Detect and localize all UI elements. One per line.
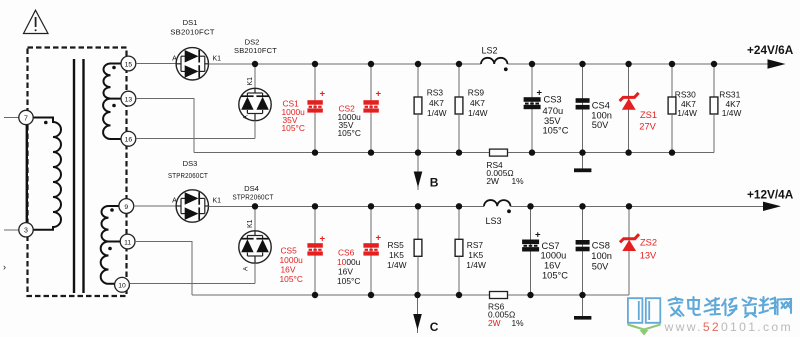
RS7 value label <box>466 240 486 270</box>
svg-text:470u: 470u <box>543 106 564 116</box>
terminal 16 <box>121 131 136 146</box>
svg-text:CS4: CS4 <box>592 100 610 110</box>
transformer secondary winding bottom (9-11-10) <box>101 206 120 284</box>
resistor RS4 (current sense) <box>490 149 508 156</box>
svg-text:16V: 16V <box>544 261 561 271</box>
terminal 13 <box>121 91 136 106</box>
RS5 value label <box>387 240 407 270</box>
CS4 value label <box>591 100 612 130</box>
resistor RS6 (current sense) <box>490 292 508 299</box>
inductor LS3 <box>484 200 510 206</box>
svg-text:SB2010FCT: SB2010FCT <box>170 27 215 36</box>
ground rail top section <box>194 152 490 154</box>
ground symbol bottom section <box>574 295 591 320</box>
junction dots top rail <box>252 61 717 67</box>
svg-text:+24V/6A: +24V/6A <box>747 43 794 57</box>
svg-text:4K7: 4K7 <box>470 98 485 108</box>
svg-text:DS3: DS3 <box>183 159 198 168</box>
resistor RS30 <box>668 64 676 153</box>
svg-text:+: + <box>535 230 541 241</box>
capacitor CS3 <box>524 64 543 153</box>
svg-text:›: › <box>3 262 6 272</box>
svg-text:K1: K1 <box>213 198 222 205</box>
warning triangle <box>24 10 49 33</box>
terminal 11 <box>120 234 135 249</box>
capacitor CS8 <box>576 206 590 295</box>
watermark site name (stylized) <box>669 297 792 317</box>
svg-text:1%: 1% <box>512 176 525 186</box>
svg-text:16: 16 <box>125 137 133 144</box>
CS6 value label <box>337 247 361 286</box>
svg-text:K1: K1 <box>247 219 254 228</box>
svg-text:1K5: 1K5 <box>389 250 404 260</box>
svg-text:K1: K1 <box>213 55 222 62</box>
inductor LS2 <box>481 58 507 64</box>
svg-text:+12V/4A: +12V/4A <box>747 187 794 201</box>
svg-text:A: A <box>172 198 177 205</box>
wire 9 to DS3 <box>134 205 176 207</box>
svg-text:LS2: LS2 <box>482 46 498 56</box>
wire 15 to DS1 <box>136 63 176 65</box>
svg-text:3: 3 <box>24 228 28 235</box>
capacitor CS7 <box>522 206 541 295</box>
CS1 value label <box>282 99 306 134</box>
svg-text:2W: 2W <box>486 176 499 186</box>
svg-text:1000u: 1000u <box>541 251 567 261</box>
RS6 value label <box>488 302 524 328</box>
node C arrow <box>413 295 422 333</box>
RS4 value label <box>486 160 524 186</box>
junction dots top ground rail <box>312 149 675 155</box>
svg-text:4K7: 4K7 <box>429 98 444 108</box>
svg-text:RS3: RS3 <box>427 88 444 98</box>
svg-text:15: 15 <box>125 61 133 68</box>
secondary top polarity dots <box>112 66 116 70</box>
RS30 value label <box>675 90 697 119</box>
svg-text:11: 11 <box>124 239 131 246</box>
wire: solid link between terminals 7 and 3 <box>26 123 28 224</box>
svg-text:105°C: 105°C <box>337 276 360 286</box>
svg-text:C: C <box>430 320 439 334</box>
resistor RS9 <box>455 64 463 153</box>
svg-text:1/4W: 1/4W <box>466 260 486 270</box>
capacitor CS2 <box>363 64 381 153</box>
CS5 value label <box>280 246 304 284</box>
svg-text:27V: 27V <box>639 121 656 131</box>
capacitor CS6 <box>363 206 381 295</box>
svg-text:LS3: LS3 <box>486 216 502 226</box>
svg-text:105°C: 105°C <box>542 270 568 280</box>
CS8 value label <box>591 241 612 272</box>
svg-text:B: B <box>430 176 439 190</box>
primary polarity dot <box>44 121 48 125</box>
svg-text:1/4W: 1/4W <box>722 108 742 118</box>
svg-text:RS5: RS5 <box>388 240 405 250</box>
svg-text:50V: 50V <box>592 120 609 130</box>
svg-text:10: 10 <box>118 283 126 290</box>
transformer primary winding <box>33 118 61 230</box>
svg-text:+: + <box>376 233 382 244</box>
terminal 3 <box>19 223 33 237</box>
svg-text:+: + <box>376 89 382 100</box>
svg-text:A: A <box>243 266 250 271</box>
svg-text:STPR2060CT: STPR2060CT <box>168 171 208 180</box>
zener ZS1 <box>620 64 639 153</box>
svg-text:ZS1: ZS1 <box>640 110 657 120</box>
diode DS2 <box>239 64 271 121</box>
svg-text:RS9: RS9 <box>468 88 485 98</box>
svg-text:CS6: CS6 <box>338 247 355 257</box>
CS3 value label <box>543 95 569 136</box>
capacitor CS5 <box>307 206 325 295</box>
+12V arrowhead <box>763 202 781 211</box>
watermark book icon <box>628 298 660 323</box>
svg-text:RS30: RS30 <box>675 90 696 100</box>
svg-text:CS7: CS7 <box>542 241 560 251</box>
transformer core <box>73 59 75 293</box>
ground rail bottom section <box>192 294 490 296</box>
RS3 value label <box>427 88 447 118</box>
+24V arrowhead <box>768 59 786 68</box>
resistor RS7 <box>455 206 463 295</box>
capacitor CS4 <box>576 64 590 153</box>
capacitor CS1 <box>307 64 325 153</box>
svg-text:13V: 13V <box>640 250 657 260</box>
CS2 value label <box>338 104 362 139</box>
svg-text:+: + <box>320 234 326 245</box>
svg-text:1%: 1% <box>512 318 525 328</box>
wire stub left of terminal 3 <box>4 229 19 231</box>
resistor RS3 <box>414 64 422 153</box>
+12V rail <box>209 205 485 207</box>
junction dots +12V rail <box>252 203 632 209</box>
svg-text:+: + <box>320 89 326 100</box>
wire 11 to ground rail <box>135 242 192 296</box>
diode DS3 <box>176 190 208 222</box>
terminal 15 <box>121 56 136 71</box>
svg-text:100n: 100n <box>591 110 612 120</box>
zener ZS2 <box>620 206 639 295</box>
terminal 9 <box>119 199 134 214</box>
node B arrow <box>414 153 423 190</box>
wire 16 to DS2 <box>136 138 255 140</box>
svg-text:9: 9 <box>124 204 128 211</box>
CS7 value label <box>541 241 569 280</box>
svg-text:CS8: CS8 <box>592 241 610 251</box>
terminal 10 <box>115 277 130 292</box>
svg-text:1000u: 1000u <box>280 255 304 265</box>
svg-text:K1: K1 <box>247 77 254 86</box>
svg-text:105°C: 105°C <box>543 126 569 136</box>
svg-text:16V: 16V <box>281 265 296 275</box>
ZS1 value label <box>639 110 657 131</box>
svg-text:1000u: 1000u <box>337 257 361 267</box>
DS4 bottom lead <box>254 263 256 283</box>
svg-text:A: A <box>243 115 250 120</box>
diode DS4 <box>239 206 271 263</box>
secondary bottom polarity dots <box>110 208 114 212</box>
svg-text:RS31: RS31 <box>719 90 740 100</box>
svg-text:16V: 16V <box>338 266 353 276</box>
svg-text:DS1: DS1 <box>183 18 198 27</box>
svg-text:1/4W: 1/4W <box>427 108 447 118</box>
svg-text:CS3: CS3 <box>544 95 562 105</box>
wire stub left of terminal 7 <box>4 117 19 119</box>
svg-text:A: A <box>172 56 177 63</box>
RS9 value label <box>468 88 488 118</box>
junction dots bottom ground rail <box>312 292 586 298</box>
svg-text:2W: 2W <box>488 318 501 328</box>
transformer dashed box <box>28 48 127 297</box>
svg-text:1/4W: 1/4W <box>387 260 407 270</box>
svg-text:SB2010FCT: SB2010FCT <box>234 46 277 55</box>
svg-text:35V: 35V <box>544 116 561 126</box>
transformer secondary winding top (15-13-16) <box>103 64 121 140</box>
svg-text:1/4W: 1/4W <box>677 108 697 118</box>
svg-text:105°C: 105°C <box>338 128 361 138</box>
DS2 bottom lead <box>254 121 256 139</box>
+24V rail <box>209 63 482 65</box>
wire 10 to DS4 <box>129 283 255 285</box>
svg-text:50V: 50V <box>592 261 609 271</box>
svg-text:13: 13 <box>125 96 133 103</box>
svg-text:105°C: 105°C <box>280 274 303 284</box>
svg-text:STPR2060CT: STPR2060CT <box>233 193 274 202</box>
svg-text:1K5: 1K5 <box>468 250 483 260</box>
ground symbol top section <box>574 153 591 173</box>
resistor RS5 <box>414 206 422 295</box>
RS31 value label <box>719 90 741 119</box>
wire 13 to ground rail <box>136 99 194 153</box>
svg-text:RS7: RS7 <box>467 240 484 250</box>
svg-text:100n: 100n <box>591 251 612 261</box>
resistor RS31 <box>710 64 718 153</box>
ZS2 value label <box>640 238 657 261</box>
svg-text:www.520101.com: www.520101.com <box>664 320 793 334</box>
svg-text:7: 7 <box>24 115 28 122</box>
svg-text:+: + <box>537 87 543 98</box>
svg-text:ZS2: ZS2 <box>640 238 657 248</box>
svg-text:1/4W: 1/4W <box>468 108 488 118</box>
diode DS1 <box>176 48 208 80</box>
terminal 7 <box>19 110 33 124</box>
svg-text:105°C: 105°C <box>282 123 305 133</box>
